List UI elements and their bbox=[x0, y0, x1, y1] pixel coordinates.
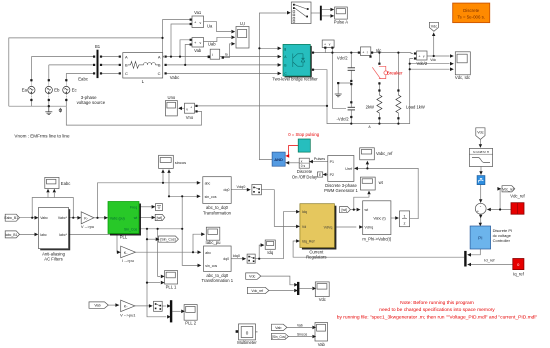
svg-text:Ua: Ua bbox=[207, 24, 213, 29]
svg-text:+: + bbox=[418, 55, 420, 59]
svg-text:abc: abc bbox=[205, 181, 211, 185]
wire Ec riser bbox=[65, 73, 67, 79]
wire Id_ref long to Idq_Ref input bbox=[293, 241, 464, 257]
svg-text:[Sin_Cos]: [Sin_Cos] bbox=[160, 238, 175, 242]
wire sin_cos branch down left bbox=[147, 229, 166, 317]
svg-text:sincos: sincos bbox=[175, 160, 186, 165]
svg-text:Iabc_B1: Iabc_B1 bbox=[5, 233, 18, 237]
svg-text:V -->pu: V -->pu bbox=[81, 224, 94, 229]
ground dc midpoint bbox=[335, 94, 342, 97]
svg-text:A: A bbox=[368, 125, 371, 129]
display wt bbox=[361, 177, 376, 194]
wire PLL wt out bbox=[139, 217, 153, 219]
bus B1 bbox=[97, 50, 99, 78]
svg-text:A: A bbox=[158, 54, 161, 59]
svg-text:Vno: Vno bbox=[186, 115, 194, 120]
svg-text:Vab: Vab bbox=[94, 304, 100, 308]
svg-text:Pulses: Pulses bbox=[314, 157, 325, 161]
wire demux out2 bbox=[322, 15, 330, 17]
scope Iabc_pu bbox=[201, 227, 220, 240]
svg-text:Vdc/2: Vdc/2 bbox=[337, 56, 348, 61]
svg-text:Vab: Vab bbox=[194, 48, 202, 53]
block L series RL bbox=[123, 53, 163, 78]
wire neutral bus of sources bbox=[9, 105, 67, 107]
svg-text:Vdq0: Vdq0 bbox=[237, 185, 246, 189]
source Eb bbox=[45, 79, 52, 101]
from tag SinCos bottom bbox=[272, 333, 289, 339]
svg-text:Iabc_pu: Iabc_pu bbox=[206, 240, 222, 245]
wire Uref loop bbox=[357, 164, 418, 219]
wire Iabc* to I-pu gain bbox=[69, 234, 121, 252]
svg-text:fc=24872 H: fc=24872 H bbox=[473, 150, 489, 154]
wire scope input3 from minus rail bbox=[410, 68, 450, 70]
wire stop pulsing red bbox=[288, 146, 298, 156]
wire VM2 output with Vdc tap bbox=[427, 34, 450, 57]
svg-text:Ts = 5e-006 s.: Ts = 5e-006 s. bbox=[457, 14, 485, 19]
wire m_Phi out to unit delay bbox=[391, 217, 397, 219]
wire mux to Vdc scope bbox=[299, 287, 312, 289]
wire Vno output arrow stub bbox=[182, 107, 185, 109]
svg-text:Idc: Idc bbox=[376, 48, 382, 53]
svg-text:C: C bbox=[158, 71, 161, 76]
svg-text:Sin_Cos: Sin_Cos bbox=[124, 227, 137, 231]
svg-text:g: g bbox=[284, 47, 286, 51]
svg-text:Eabc: Eabc bbox=[78, 76, 89, 81]
svg-text:[wt]: [wt] bbox=[157, 216, 162, 220]
wire VdVq to m_Phi bbox=[336, 226, 356, 228]
svg-text:Transformation: Transformation bbox=[203, 210, 232, 215]
wire Va1 input2 tap bbox=[163, 24, 191, 57]
display Vabc_ref bbox=[360, 148, 375, 165]
constant Iq_ref bbox=[513, 259, 524, 270]
svg-text:z: z bbox=[404, 220, 406, 225]
selector2 bbox=[242, 254, 255, 263]
block AND bbox=[272, 152, 289, 166]
wire sin_cos branch to transformation1 bbox=[182, 229, 200, 266]
wire Eabc_B1 to filter bbox=[19, 217, 37, 219]
svg-text:Vd: Vd bbox=[302, 225, 306, 229]
svg-text:dq0: dq0 bbox=[224, 188, 230, 192]
svg-text:Controller: Controller bbox=[493, 238, 511, 243]
svg-text:AND: AND bbox=[274, 157, 283, 162]
wire filter to zoh bbox=[480, 167, 482, 175]
svg-text:P2: P2 bbox=[330, 173, 334, 177]
svg-text:wt: wt bbox=[365, 208, 369, 212]
svg-text:0 s: 0 s bbox=[301, 164, 306, 168]
svg-text:abc: abc bbox=[205, 251, 211, 255]
wire PLL Sin_Cos out bbox=[139, 196, 200, 229]
wire P1 pulses bbox=[312, 161, 328, 163]
block discrete PI controller bbox=[470, 223, 491, 249]
wire Ua to scope bbox=[204, 22, 232, 32]
wire selector1 to current regulator Vd input bbox=[261, 190, 298, 227]
svg-text:Iq_ref: Iq_ref bbox=[513, 271, 525, 276]
scope Vdc Idc bbox=[450, 52, 470, 75]
capacitor C2 bbox=[348, 107, 355, 110]
wire Vabc pu tap to abc_to_dq0 bbox=[98, 183, 201, 218]
svg-text:+: + bbox=[324, 42, 326, 46]
wire selector2 to current regulator Idq input bbox=[255, 212, 298, 259]
svg-text:Id_ref: Id_ref bbox=[484, 257, 495, 262]
wire Vabc* to V-pu gain bbox=[69, 217, 81, 219]
wire Vdc from-tag down to filter bbox=[479, 140, 481, 148]
selector1 bbox=[247, 185, 262, 195]
gain V to pu bbox=[77, 212, 94, 224]
wire sum to PI bbox=[480, 214, 482, 225]
wire DC minus from rectifier bbox=[313, 59, 413, 124]
wire Eabc scope loop bbox=[32, 193, 73, 218]
goto tag wt bbox=[152, 214, 165, 220]
scope Pulse A bbox=[335, 7, 348, 19]
capacitor midpoint ports bbox=[350, 80, 352, 118]
scope Vdc bbox=[312, 282, 329, 297]
wire Vab input1 tap bbox=[180, 40, 190, 57]
wire midpoint to ground bbox=[338, 83, 351, 94]
wire gate g bbox=[259, 47, 281, 49]
svg-text:Vabc (pu): Vabc (pu) bbox=[110, 216, 125, 220]
scope PLL 2 bbox=[181, 305, 197, 321]
svg-text:Iabc*: Iabc* bbox=[59, 233, 68, 237]
source Ea bbox=[28, 79, 35, 101]
wire V-pu out to PLL bbox=[94, 217, 105, 219]
block zero order hold bbox=[477, 176, 485, 203]
bus B1 ports bbox=[93, 56, 167, 75]
from tag Eabc_B1 bbox=[4, 214, 38, 221]
constant Vdc_ref bbox=[511, 203, 524, 215]
wire I-pu out to transformation2 bbox=[136, 251, 201, 253]
wire wt from-tag to m_Phi bbox=[350, 195, 369, 210]
constant stop pulsing bbox=[298, 139, 310, 152]
svg-text:sin_cos: sin_cos bbox=[205, 195, 217, 199]
demux bar bbox=[320, 6, 334, 21]
block Va1 voltage measurement bbox=[190, 16, 204, 28]
wire demux to bar bbox=[311, 12, 320, 14]
gain V to pu1 bbox=[121, 300, 135, 311]
svg-text:Eabc: Eabc bbox=[61, 181, 71, 186]
block PLL bbox=[104, 202, 141, 236]
wire Vdc tag to mux bottom bbox=[261, 276, 294, 285]
from tag Vdc bottom bbox=[246, 273, 261, 279]
svg-text:m_Phi->Vabc(t): m_Phi->Vabc(t) bbox=[362, 236, 392, 241]
svg-text:[Sin_Cos]: [Sin_Cos] bbox=[272, 335, 286, 339]
wire load branch bbox=[397, 53, 399, 124]
wire Vdq0 to selector1 bbox=[231, 189, 250, 191]
selector3 bbox=[149, 301, 162, 311]
from tag wt2 bbox=[340, 207, 361, 213]
svg-text:v: v bbox=[200, 21, 202, 25]
svg-text:V -->pu1: V -->pu1 bbox=[120, 313, 136, 318]
svg-text:A: A bbox=[125, 54, 128, 59]
wire selector3 to mux2 bbox=[162, 305, 166, 307]
svg-text:Ia: Ia bbox=[225, 52, 228, 56]
wire phase C row bbox=[66, 72, 281, 74]
wire Vab tag to V-pu1 bbox=[108, 304, 119, 306]
svg-text:voltage source: voltage source bbox=[77, 100, 106, 105]
from tag Vab left bbox=[89, 302, 119, 308]
wire PI out to mux bbox=[470, 249, 480, 255]
block VM2 Vdc measurement bbox=[414, 51, 427, 60]
svg-text:Transformation 1: Transformation 1 bbox=[202, 278, 234, 283]
wire neutral down to Vno return bbox=[66, 106, 201, 125]
gain I to pu bbox=[117, 246, 136, 258]
svg-text:Eabc_B1: Eabc_B1 bbox=[4, 216, 18, 220]
wire Ea riser bbox=[30, 57, 32, 79]
from tag Vdc top right bbox=[476, 128, 485, 148]
wire Idc output to scope input2 bbox=[410, 63, 450, 65]
wire PLL Freq out bbox=[139, 206, 153, 208]
goto tag P2 bbox=[318, 172, 327, 177]
mux PLL2 bbox=[167, 300, 172, 322]
mux Vdc scope bbox=[294, 282, 299, 295]
svg-text:Uab: Uab bbox=[208, 42, 216, 47]
block PWM generator bbox=[328, 156, 358, 182]
block Idc measurement bbox=[358, 47, 373, 58]
svg-text:P1: P1 bbox=[330, 160, 334, 164]
breaker bbox=[372, 63, 387, 85]
svg-text:Sincos: Sincos bbox=[297, 332, 307, 336]
scope PLL 1 bbox=[161, 271, 178, 285]
svg-text:Uno: Uno bbox=[168, 95, 176, 100]
svg-text:I -->pu: I -->pu bbox=[122, 258, 134, 263]
node zero marker bbox=[59, 108, 62, 113]
block Vab voltage measurement bbox=[190, 38, 204, 48]
svg-text:Vdc_ref: Vdc_ref bbox=[510, 193, 525, 198]
capacitor C1 bbox=[348, 68, 355, 71]
svg-text:v: v bbox=[186, 107, 188, 111]
svg-text:B: B bbox=[125, 63, 128, 68]
svg-text:PLL 1: PLL 1 bbox=[166, 284, 177, 289]
svg-text:0: 0 bbox=[246, 331, 249, 336]
scope Idq bbox=[261, 240, 276, 249]
svg-text:Vabc*: Vabc* bbox=[58, 216, 68, 220]
svg-text:On /Off Delay: On /Off Delay bbox=[292, 174, 318, 179]
svg-text:need to be charged specificati: need to be charged specifications into s… bbox=[379, 307, 495, 313]
wire neutral frame to Va1 bbox=[9, 20, 190, 107]
block lowpass filter bbox=[469, 148, 492, 175]
block discrete on off delay bbox=[299, 158, 313, 168]
wire Vdc_ref const to sum bbox=[487, 189, 511, 210]
wire Iabc pu tap to scope bbox=[193, 234, 205, 252]
multimeter bbox=[236, 324, 258, 340]
svg-text:+: + bbox=[477, 209, 479, 213]
svg-text:VdVq: VdVq bbox=[324, 226, 333, 230]
svg-text:VdVq: VdVq bbox=[365, 225, 374, 229]
wire P2 to tag bbox=[325, 174, 327, 176]
wire Ia output to scope bbox=[223, 44, 231, 58]
svg-text:Multimeter: Multimeter bbox=[237, 340, 257, 345]
wire Iabc_B1 to filter bbox=[19, 233, 37, 235]
svg-text:Vnom : EMFrms line to line: Vnom : EMFrms line to line bbox=[14, 134, 70, 139]
block anti-aliasing filters bbox=[35, 208, 71, 251]
svg-text:Vabc (t): Vabc (t) bbox=[373, 217, 385, 221]
svg-text:Vabc: Vabc bbox=[170, 75, 180, 80]
svg-text:Vab: Vab bbox=[297, 323, 303, 327]
svg-text:Vdc: Vdc bbox=[431, 25, 438, 29]
svg-text:PLL 2: PLL 2 bbox=[185, 321, 196, 326]
svg-text:Idq: Idq bbox=[267, 250, 273, 255]
svg-text:B1: B1 bbox=[95, 44, 101, 49]
scope Uno bbox=[166, 101, 183, 116]
svg-text:Regulators: Regulators bbox=[306, 255, 326, 260]
resistor 2kW bbox=[377, 89, 382, 119]
block abc_to_dq0 transformation 1 bbox=[198, 246, 232, 271]
block m_Phi to Vabc bbox=[359, 201, 391, 235]
svg-text:Ea: Ea bbox=[22, 88, 28, 93]
wire SinCos tag to scope bbox=[288, 336, 312, 338]
wire DC plus rail bbox=[313, 52, 413, 55]
svg-text:Vab: Vab bbox=[318, 342, 326, 347]
wire phase A row bbox=[31, 56, 281, 58]
wire demux out1 bbox=[322, 9, 330, 11]
wire V-pu1 to selector3 bbox=[135, 305, 152, 307]
svg-text:Vab: Vab bbox=[275, 326, 281, 330]
svg-text:U,I: U,I bbox=[240, 21, 245, 26]
wire source bottoms to neutral bbox=[31, 101, 66, 106]
source Ec bbox=[63, 79, 70, 101]
svg-text:+: + bbox=[362, 51, 364, 55]
wire Vab tag to scope bbox=[287, 326, 313, 328]
wire breaker branch bbox=[378, 53, 380, 124]
wire pulses vertical bbox=[259, 13, 286, 160]
scope Eabc bbox=[45, 177, 59, 192]
goto tag Vdc_ref bbox=[497, 186, 514, 192]
svg-text:dq0: dq0 bbox=[223, 257, 229, 261]
svg-text:Freq: Freq bbox=[130, 205, 137, 209]
svg-text:Vdc_ref: Vdc_ref bbox=[502, 187, 513, 191]
powergui discrete bbox=[453, 3, 490, 23]
scope U,I bbox=[231, 27, 249, 49]
resistor Load 1kW bbox=[396, 89, 401, 119]
svg-text:Load 1kW: Load 1kW bbox=[406, 105, 425, 110]
svg-text:v: v bbox=[200, 41, 202, 45]
wire VM1 left port stub bbox=[324, 48, 326, 53]
svg-text:PI: PI bbox=[478, 236, 482, 241]
svg-text:Discrete: Discrete bbox=[463, 8, 480, 13]
block Vno measurement bbox=[185, 103, 198, 113]
svg-text:+: + bbox=[190, 105, 192, 109]
svg-text:Note: Before running this prog: Note: Before running this program bbox=[400, 300, 474, 306]
wire Uab to scope bbox=[204, 37, 232, 41]
svg-text:Vabc: Vabc bbox=[40, 216, 48, 220]
svg-text:Vdc_ref: Vdc_ref bbox=[251, 289, 263, 293]
wire Vno to minus rail bbox=[197, 105, 328, 107]
block unit delay 1/z bbox=[395, 211, 409, 227]
wire Idq tap to scope bbox=[259, 245, 263, 259]
svg-text:C: C bbox=[125, 71, 128, 76]
svg-text:AC Filters: AC Filters bbox=[44, 256, 62, 261]
wire Vab input2 tap bbox=[185, 45, 190, 65]
svg-text:Vdc: Vdc bbox=[249, 275, 256, 279]
svg-text:Idq0: Idq0 bbox=[233, 254, 240, 258]
from tag Vdc_ref bottom bbox=[247, 287, 269, 293]
svg-text:B: B bbox=[158, 63, 161, 68]
scope sincos bbox=[159, 155, 174, 173]
ground source bbox=[45, 106, 52, 114]
svg-text:L: L bbox=[142, 79, 145, 84]
wire wt branch to PLL1 scope bbox=[158, 229, 161, 277]
svg-text:2kW: 2kW bbox=[366, 105, 374, 110]
svg-text:Breaker: Breaker bbox=[387, 71, 403, 76]
wire mux2 to PLL2 scope bbox=[172, 310, 181, 312]
svg-text:PWM Generator 1: PWM Generator 1 bbox=[324, 188, 358, 193]
svg-text:Va1: Va1 bbox=[194, 10, 202, 15]
wire capacitor leg bbox=[350, 53, 352, 124]
svg-text:Vdc, Idc: Vdc, Idc bbox=[455, 75, 470, 80]
svg-text:Iabc: Iabc bbox=[40, 233, 47, 237]
terminator freq bbox=[152, 204, 163, 211]
svg-text:wt: wt bbox=[379, 180, 384, 185]
svg-text:0 = Stop pulsing: 0 = Stop pulsing bbox=[288, 132, 320, 137]
svg-text:Idq: Idq bbox=[302, 210, 307, 214]
wire phase B row bbox=[49, 64, 281, 66]
scope Vab bbox=[312, 323, 327, 342]
wire delay out to AND bbox=[288, 162, 299, 164]
svg-text:Ec: Ec bbox=[72, 88, 78, 93]
demux selector pulses bbox=[287, 2, 311, 24]
svg-text:wt: wt bbox=[134, 216, 138, 220]
wire Vdc_ref tag to mux bottom bbox=[269, 290, 294, 292]
svg-text:Uref: Uref bbox=[345, 167, 352, 171]
from tag Vab bottom bbox=[272, 324, 287, 330]
goto tag Sin_Cos bbox=[156, 236, 179, 242]
block abc_to_dq0 transformation bbox=[197, 177, 231, 204]
block Ia current measurement bbox=[208, 49, 224, 59]
svg-text:E: E bbox=[319, 173, 321, 177]
block current regulators bbox=[296, 204, 336, 250]
wire Eb riser bbox=[48, 65, 50, 79]
svg-text:Pulse A: Pulse A bbox=[334, 20, 348, 25]
wire Iq_ref to mux bbox=[470, 264, 513, 266]
svg-text:Eb: Eb bbox=[54, 88, 60, 93]
svg-text:Two-level bridge rectifier: Two-level bridge rectifier bbox=[272, 77, 318, 82]
svg-text:Vdc: Vdc bbox=[477, 130, 484, 134]
svg-text:[wt]: [wt] bbox=[341, 208, 346, 212]
svg-text:Vdc: Vdc bbox=[319, 297, 326, 302]
block VM1 Vdc/2 bbox=[322, 40, 334, 49]
from tag Iabc_B1 bbox=[5, 231, 38, 238]
svg-text:Vabc_ref: Vabc_ref bbox=[376, 151, 393, 156]
svg-text:PLL: PLL bbox=[120, 235, 128, 240]
wire zoh to sum bbox=[480, 185, 482, 203]
wire Idq0 to selector2 bbox=[231, 258, 245, 260]
svg-text:-Vdc/2: -Vdc/2 bbox=[337, 117, 350, 122]
mux Id_ref bbox=[464, 251, 471, 267]
rectifier two-level bridge bbox=[278, 44, 315, 77]
svg-text:sin_cos: sin_cos bbox=[205, 264, 217, 268]
svg-text:Idq_Ref: Idq_Ref bbox=[302, 240, 315, 244]
svg-text:by running file: "spec1_3kwge: by running file: "spec1_3kwgenerator .m;… bbox=[337, 314, 538, 320]
goto tag Vdc top bbox=[429, 22, 438, 36]
svg-text:Vdc: Vdc bbox=[430, 58, 436, 62]
svg-text:Vdc/2: Vdc/2 bbox=[416, 61, 427, 66]
wire VM1 right port down to cap midpoint bbox=[332, 48, 346, 109]
sum block bbox=[475, 203, 490, 218]
wire sincos scope taps bbox=[163, 173, 169, 196]
